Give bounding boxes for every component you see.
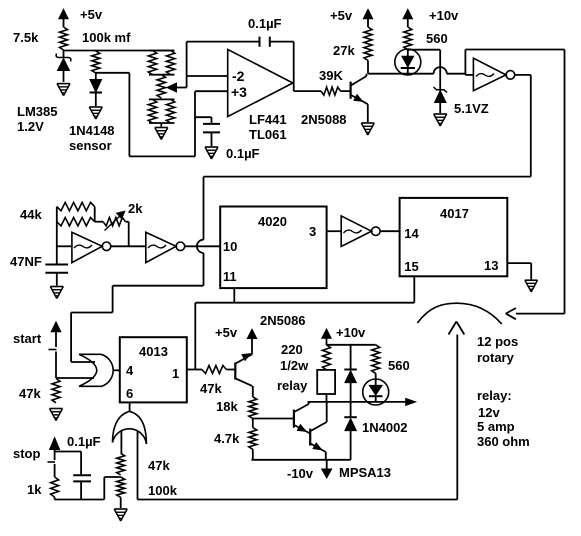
wire osc out to 4020 pin10 [185,245,221,247]
wire junction to stop net [104,476,120,478]
wire pin15 reset bus [413,276,415,302]
wire pin1 out [187,369,202,371]
zener 5.1VZ [434,87,448,93]
svg-text:MPSA13: MPSA13 [339,465,391,480]
wire +10v bus [327,344,376,346]
potentiometer middle element [157,75,165,98]
svg-text:relay:: relay: [477,388,512,403]
arrow to rotary (left) [506,308,516,314]
svg-text:1N4002: 1N4002 [362,420,408,435]
power +5v arrow (top left) [63,17,65,27]
svg-text:12 pos: 12 pos [477,334,518,349]
svg-text:0.1µF: 0.1µF [67,434,101,449]
ground under 1N4148 [89,106,102,108]
svg-text:0.1µF: 0.1µF [248,16,282,31]
resistor 1k [51,477,59,497]
resistor 47k start [52,379,60,403]
wire inverter1 output loop [515,74,531,76]
capacitor 0.1uF at +3 [195,116,212,118]
svg-text:47k: 47k [148,458,170,473]
pot wiper arrow [167,83,177,92]
resistor 44k pair [57,202,95,210]
stop push button [50,438,60,450]
svg-text:2N5086: 2N5086 [260,313,306,328]
resistor R 7.5k [60,27,68,50]
svg-text:10: 10 [223,239,237,254]
trimmer 2k [95,221,103,223]
IC 4013 box [120,337,187,402]
svg-text:sensor: sensor [69,138,112,153]
svg-text:560: 560 [388,358,410,373]
wire pin11 down [233,288,235,303]
svg-text:5.1VZ: 5.1VZ [454,101,489,116]
resistor 220 [323,345,331,370]
svg-text:2N5088: 2N5088 [301,112,347,127]
svg-text:1.2V: 1.2V [17,119,44,134]
svg-text:+5v: +5v [330,8,353,23]
inverter U3A [72,232,102,262]
svg-text:2k: 2k [128,201,143,216]
svg-text:TL061: TL061 [249,127,287,142]
inverter U3C [341,216,371,247]
resistor 27k [364,27,372,61]
svg-text:relay: relay [277,378,308,393]
relay coil box [317,370,335,394]
svg-text:0.1µF: 0.1µF [226,146,260,161]
wire emitter bottom bus [251,459,350,461]
op-amp U1 triangle [228,49,293,116]
diode 1N4148 [95,73,97,80]
svg-text:rotary: rotary [477,350,515,365]
wire right side down to rotary [564,50,566,314]
svg-text:4013: 4013 [139,344,168,359]
wire between inverters [111,245,146,247]
svg-text:11: 11 [223,269,237,284]
svg-text:1: 1 [172,366,179,381]
resistor 100k [117,477,125,497]
rotary switch arc [417,303,502,324]
diode 1N4002 upper [350,345,352,370]
wire pin3 to inverter [327,230,342,232]
wire collector bus with hop [368,73,434,75]
inverter U3B [146,232,176,262]
svg-text:4.7k: 4.7k [214,431,240,446]
LED D2 in circle [375,373,377,385]
ground under 100k [114,508,127,510]
ground under cap [205,146,218,148]
svg-text:5 amp: 5 amp [477,419,515,434]
IC 4020 box [220,207,326,289]
IC 4017 box [400,198,508,276]
power +10v arrow [407,17,409,27]
ground under pot [155,127,168,129]
wire down with hop over osc [203,177,205,240]
OR gate stop (dome) [113,411,147,444]
svg-text:-10v: -10v [287,466,314,481]
svg-text:39K: 39K [319,68,343,83]
capacitor 0.1uF stop [73,474,91,476]
svg-text:+5v: +5v [80,7,103,22]
potentiometer lower pair [149,98,175,100]
svg-text:7.5k: 7.5k [13,30,39,45]
resistor 560 relay [372,345,380,374]
svg-text:47k: 47k [200,381,222,396]
ground under 47NF [50,286,63,288]
svg-text:4017: 4017 [440,206,469,221]
power -10v arrow [326,460,328,469]
ground under 2N5088 [361,122,374,124]
svg-text:100k: 100k [148,483,178,498]
svg-text:18k: 18k [216,399,238,414]
resistor R 100k [92,51,100,73]
start push button [55,331,57,347]
svg-text:3: 3 [309,224,316,239]
wire relay bottom bus with arrow [308,401,407,403]
inverter U2 schmitt [473,58,506,90]
wire node to pot top [64,50,175,52]
svg-text:47NF: 47NF [10,254,42,269]
ground under zener [434,113,447,115]
svg-text:1k: 1k [27,482,42,497]
svg-text:stop: stop [13,446,41,461]
svg-text:360 ohm: 360 ohm [477,434,530,449]
wire pin6 stub [129,402,131,411]
svg-text:1N4148: 1N4148 [69,123,115,138]
wire -2 input [187,75,228,77]
svg-text:6: 6 [126,386,133,401]
transistor Q1 2N5088 [350,82,352,99]
svg-text:44k: 44k [20,207,42,222]
svg-text:14: 14 [404,226,419,241]
power +10v arrow (relay) [326,337,328,345]
wire staircase to OR gate [113,285,204,287]
resistor 560 top [404,27,412,50]
svg-text:12v: 12v [478,405,500,420]
resistor 47k (pin1) [202,366,226,374]
ground under LM385 [57,83,70,85]
svg-text:start: start [13,331,42,346]
feedback wire top [187,41,260,43]
potentiometer upper pair [149,50,175,52]
diode 1N4002 lower [350,402,352,418]
wire dome left input [120,431,122,453]
resistor 4.7k [252,419,254,428]
svg-text:+3: +3 [231,84,247,100]
svg-text:100k mf: 100k mf [82,30,131,45]
wire wiper to -2 node [186,42,188,88]
wire op-amp output / feedback [293,42,295,92]
wire OR out to pin4 [113,369,120,371]
wire sensor to op-amp +3 [96,72,130,74]
LED D1 in circle [407,50,409,57]
svg-text:+5v: +5v [215,325,238,340]
capacitor 47NF [45,264,68,266]
ground under 47k start [50,408,63,410]
wire pin13 to ground [507,262,531,264]
svg-text:27k: 27k [333,43,355,58]
transistor Q3 MPSA13 second [309,429,311,446]
OR gate start [79,353,101,355]
ground pin13 [525,279,538,281]
transistor Q2 MPSA13 first [293,410,295,428]
svg-text:+10v: +10v [429,8,459,23]
wire stop to cap [55,451,82,453]
svg-text:4020: 4020 [258,214,287,229]
svg-text:560: 560 [426,31,448,46]
resistor 47k stop [117,453,125,475]
svg-text:47k: 47k [19,386,41,401]
wire to inverter input [464,74,466,75]
svg-text:220: 220 [281,342,303,357]
svg-text:4: 4 [126,363,134,378]
rotary wiper arrow [449,322,457,335]
wire to 4017 pin14 [380,230,400,232]
capacitor 0.1uF feedback [259,37,261,47]
resistor 18k [252,386,254,397]
svg-text:+10v: +10v [336,325,366,340]
svg-text:1/2w: 1/2w [280,358,309,373]
2N5086 body [234,363,236,380]
wire 560 bottom to zener [408,49,440,51]
wire start to OR [56,377,94,379]
wire dome right input from rotary [137,431,139,500]
resistor 39K [321,87,341,95]
wire osc input node [56,207,58,265]
svg-text:15: 15 [404,259,418,274]
zener LM385 [63,51,65,58]
svg-text:LM385: LM385 [17,104,57,119]
power +5v arrow (27k) [367,17,369,27]
svg-text:13: 13 [484,258,498,273]
svg-text:LF441: LF441 [249,112,287,127]
svg-text:-2: -2 [232,68,245,84]
